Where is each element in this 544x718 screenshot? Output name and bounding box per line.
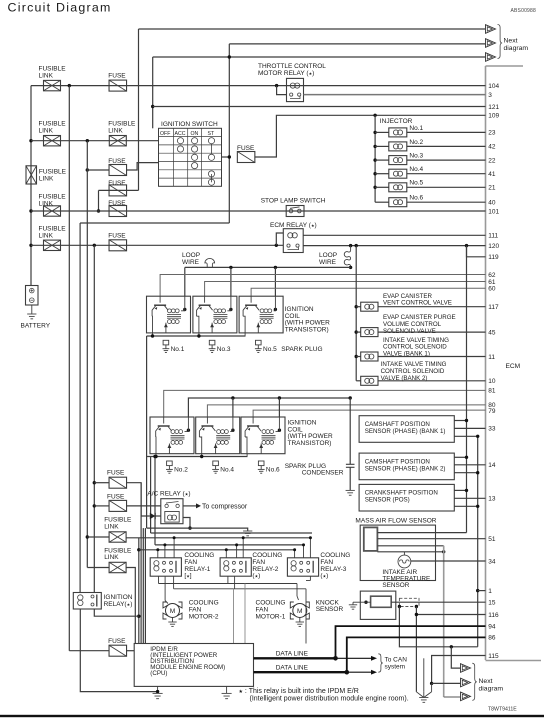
svg-text:No.3: No.3 [409, 153, 423, 160]
wire MAF ground [377, 545, 443, 547]
cooling fan motor-1 ground [299, 618, 301, 623]
wire vertical to ignition switch [152, 57, 154, 128]
svg-text:MOTOR-1: MOTOR-1 [256, 613, 286, 620]
node dot bus C junction [228, 55, 231, 58]
svg-text:3: 3 [488, 92, 492, 99]
svg-text:CAMSHAFT POSITION: CAMSHAFT POSITION [365, 421, 430, 428]
svg-text:DATA LINE: DATA LINE [276, 664, 309, 671]
node dot pin119 branch [465, 244, 468, 247]
cooling fan relay-1 [150, 558, 181, 576]
sensor box CAMSHAFT POSITION 1 [359, 416, 454, 443]
battery B1 [26, 286, 39, 306]
wire vertical x87.3 from FL2 [86, 141, 88, 568]
wire pin 116 [416, 607, 485, 615]
fusible link FL7 [109, 532, 126, 542]
mass air flow sensor box [360, 525, 435, 580]
svg-text:SPARK PLUG: SPARK PLUG [281, 346, 322, 353]
svg-text:No.1: No.1 [171, 346, 185, 353]
wire F7 out to diode [127, 483, 150, 516]
svg-text:VENT CONTROL VALVE: VENT CONTROL VALVE [383, 300, 452, 307]
wire MAF signal pin 51 [377, 538, 485, 540]
svg-text:FUSE: FUSE [108, 158, 126, 165]
svg-text:79: 79 [488, 408, 496, 415]
next diagram bracket top [498, 25, 503, 59]
svg-text:(★): (★) [252, 573, 260, 580]
CAN bracket [378, 654, 383, 672]
wire pin 79 to coil6 base [253, 410, 485, 417]
AC ground [243, 530, 252, 532]
svg-text:115: 115 [488, 653, 499, 660]
wire solenoid 4 to ECM [378, 380, 486, 382]
fusible link FL3 [109, 136, 126, 146]
svg-text:★ : This relay is built into t: ★ : This relay is built into the IPDM E/… [239, 688, 359, 695]
wire pin 94 thick [336, 626, 486, 658]
svg-text:FUSE: FUSE [107, 469, 125, 476]
next diagram bracket bottom [472, 663, 476, 700]
svg-text:BATTERY: BATTERY [21, 323, 51, 330]
svg-text:No.4: No.4 [220, 467, 234, 474]
svg-text:FUSE: FUSE [107, 493, 125, 500]
wire injector No.2 to ECM [407, 145, 486, 147]
wire F4 row [99, 189, 139, 191]
svg-text:WIRE: WIRE [182, 259, 200, 266]
wire emitter bus down [146, 336, 148, 457]
injector No.3 [373, 158, 376, 161]
svg-text:10: 10 [488, 378, 496, 385]
wire relay contact feed [277, 86, 287, 95]
wire ECM relay coil feed [276, 233, 283, 245]
svg-text:ST: ST [208, 131, 215, 137]
wire ECM relay contact out pin 120 [303, 245, 485, 247]
knock shield dashed box [399, 598, 419, 606]
wire MAF shield [377, 551, 443, 553]
wire bus to arrow A [139, 28, 486, 30]
svg-text:diagram: diagram [504, 45, 529, 52]
svg-text:DATA LINE: DATA LINE [276, 650, 309, 657]
wire ignition relay out [94, 609, 139, 616]
knock sensor box [360, 591, 396, 619]
wire trunk x143.3 [142, 528, 144, 643]
wire coil row1 power bus [185, 266, 351, 268]
svg-text:MOTOR RELAY (★): MOTOR RELAY (★) [258, 70, 314, 77]
wire ignition relay coil return [80, 609, 157, 692]
svg-text:M: M [170, 608, 176, 615]
injector No.2 [373, 145, 376, 148]
svg-text:ECM: ECM [506, 363, 521, 370]
fusible link FL8 [109, 562, 126, 572]
spark plug No.3 [209, 340, 215, 345]
cooling fan relay-2 [220, 558, 251, 576]
wire FL8 row [87, 567, 109, 569]
svg-text:51: 51 [488, 536, 496, 543]
data line 2 [254, 671, 347, 673]
fuse F1 [109, 80, 127, 91]
wire bus to arrow C [153, 56, 486, 58]
injector No.5 [373, 186, 376, 189]
svg-text:(Intelligent power distributio: (Intelligent power distribution module e… [250, 696, 409, 703]
wire F9 to IPDM [127, 650, 135, 652]
cooling fan motor-1 [293, 604, 307, 618]
svg-text:FUSE: FUSE [108, 638, 126, 645]
svg-text:To CAN: To CAN [385, 657, 408, 664]
svg-text:Next: Next [504, 38, 518, 45]
cooling fan relay-3 [287, 558, 318, 576]
wire F4 feed vertical [98, 190, 100, 211]
relay contact symbol [290, 93, 293, 96]
svg-text:FUSE: FUSE [108, 232, 126, 239]
svg-text:121: 121 [488, 104, 499, 111]
fusible link FL6 vertical inline [26, 166, 37, 184]
svg-text:34: 34 [488, 558, 496, 565]
node dot shield right [415, 605, 418, 608]
svg-text:104: 104 [488, 83, 499, 90]
IPDM ground left [157, 686, 159, 693]
wire solenoid feed vertical [355, 246, 357, 381]
spark plug No.4 [213, 461, 219, 466]
spark plug No.5 [256, 340, 262, 345]
injector No.1 [373, 131, 376, 134]
wire pin 1 stub [476, 589, 479, 592]
fuse F9 [109, 645, 127, 656]
svg-text:Next: Next [479, 678, 493, 685]
injector No.4 [373, 172, 376, 175]
IPDM ground right [226, 686, 228, 693]
cooling bus y549.8 [139, 549, 295, 551]
wire injector No.5 to ECM [407, 186, 486, 188]
wire pin101 bus [31, 210, 486, 212]
node dot F3 feed [86, 168, 89, 171]
node dot MAF shield [442, 550, 445, 553]
wire FL7 row [87, 536, 109, 538]
node dot after FL5 [93, 244, 96, 247]
next diagram arrow E [461, 678, 471, 687]
svg-text:116: 116 [488, 612, 499, 619]
svg-text:No.6: No.6 [266, 467, 280, 474]
fusible link FL4 [44, 206, 61, 216]
svg-text:111: 111 [488, 233, 498, 240]
injector No.6 [375, 201, 389, 203]
svg-text:60: 60 [488, 286, 496, 293]
sensor 1 power stub [454, 420, 466, 422]
cooling relay to motor wires [158, 576, 160, 583]
data line 1 [254, 657, 336, 659]
svg-text:45: 45 [488, 329, 496, 336]
wire left battery bus [30, 86, 32, 286]
svg-text:LINK: LINK [108, 128, 123, 135]
loop wire right symbol [344, 246, 350, 268]
sensor 1 signal to ECM [454, 427, 485, 429]
wire AC relay contact out [183, 505, 196, 507]
svg-text:LINK: LINK [104, 523, 119, 530]
ignition switch contacts [177, 138, 183, 144]
svg-text:No.3: No.3 [217, 346, 231, 353]
node dot EVAP feed [355, 244, 358, 247]
svg-text:RELAY(★): RELAY(★) [104, 601, 133, 608]
wire trunk x141.1 [140, 483, 142, 644]
fuse F7 [109, 477, 127, 488]
sensor 2 power stub [454, 456, 466, 458]
loop wire left symbol [205, 258, 215, 267]
svg-text:STOP LAMP SWITCH: STOP LAMP SWITCH [261, 197, 326, 204]
svg-text:OFF: OFF [160, 131, 170, 137]
IPDM E/R box [134, 644, 253, 687]
node dot switch output [228, 155, 231, 158]
svg-text:No.2: No.2 [409, 139, 423, 146]
sensor 3 signal to ECM [454, 497, 485, 499]
svg-text:WIRE: WIRE [319, 259, 337, 266]
intake air temperature sensor [403, 552, 405, 555]
svg-text:T8WT9411E: T8WT9411E [488, 707, 517, 713]
next diagram arrow D [461, 664, 471, 673]
wire injector No.3 to ECM [407, 159, 486, 161]
svg-text:ON: ON [191, 131, 199, 137]
wire trunk x138.8 [138, 538, 140, 644]
wire knock signal pin 15 [391, 601, 485, 603]
node dot row1 power box2 [229, 266, 232, 269]
svg-text:RELAY-2: RELAY-2 [252, 566, 278, 573]
next diagram arrow F [461, 692, 471, 701]
svg-text:86: 86 [488, 635, 496, 642]
wire shield to funnel [415, 615, 417, 692]
wire FL8 out down to IPDM [126, 568, 135, 644]
node dot link4 feed [29, 209, 32, 212]
wire row2 emitter bus corners down [146, 457, 148, 529]
svg-text:120: 120 [488, 243, 499, 250]
wire pin 61 to coil2 base [205, 282, 486, 297]
next diagram arrow B [486, 39, 496, 48]
svg-text:94: 94 [488, 623, 496, 630]
sensor box CAMSHAFT POSITION 2 [359, 453, 454, 480]
svg-text:CAMSHAFT POSITION: CAMSHAFT POSITION [365, 458, 430, 465]
wire row1 power drop box3 [274, 267, 276, 296]
svg-text:FUSE: FUSE [108, 72, 126, 79]
sensor 2 ground stub [454, 472, 477, 474]
svg-text:LINK: LINK [39, 128, 54, 135]
svg-text:No.4: No.4 [409, 166, 423, 173]
fuse F5 [109, 206, 127, 217]
svg-text:system: system [385, 664, 406, 671]
svg-text:LINK: LINK [39, 232, 54, 239]
svg-text:SENSOR (POS): SENSOR (POS) [365, 497, 410, 504]
wire sensor ground vertical x477.7 [477, 436, 479, 647]
wire solenoid 2 to ECM [378, 331, 486, 333]
svg-text:No.1: No.1 [409, 125, 423, 132]
wire pin 119 branch [467, 246, 486, 257]
wire F3 out to switch [127, 163, 159, 170]
sensor 3 power stub [454, 489, 466, 491]
svg-text:diagram: diagram [479, 686, 504, 693]
solenoid valve EVAP CANISTER PURGE 2 [355, 330, 358, 333]
wire F3 feed [87, 169, 108, 171]
svg-text:101: 101 [488, 208, 499, 215]
wire to arrow2 [432, 682, 461, 684]
svg-text:LINK: LINK [104, 554, 119, 561]
wire ignition switch feed bus [31, 140, 159, 142]
node dot F4 on bus [97, 209, 100, 212]
ignition relay U4 [73, 593, 101, 610]
node junction at x152.7 y106.5 [151, 105, 154, 108]
fuse F4 [109, 185, 127, 196]
svg-text:SENSOR (PHASE) (BANK 2): SENSOR (PHASE) (BANK 2) [365, 465, 446, 472]
svg-text:81: 81 [488, 388, 496, 395]
svg-text:To compressor: To compressor [202, 503, 248, 510]
fuse F6 [109, 240, 127, 251]
wire trunk x145.4 [144, 528, 146, 643]
svg-text:33: 33 [488, 426, 496, 433]
fusible link FL2 [44, 136, 61, 146]
svg-text:41: 41 [488, 171, 496, 178]
svg-text:ABS00988: ABS00988 [510, 8, 536, 14]
svg-text:(CPU): (CPU) [150, 670, 167, 677]
svg-text:117: 117 [488, 304, 499, 311]
wire vertical x94.3 from FL5 [93, 245, 95, 592]
wire vertical x80.1 ignition feed [79, 223, 81, 593]
svg-text:SENSOR: SENSOR [316, 606, 344, 613]
wire vertical x69.3 from FL1 [68, 86, 70, 651]
cooling relay top stubs [157, 550, 159, 558]
spark plug No.2 [167, 461, 173, 466]
wire left loop to coil box1 [184, 267, 186, 296]
svg-text:109: 109 [488, 113, 499, 120]
wire arrow1 branch [451, 647, 460, 668]
cooling fan motor-2 ground [172, 618, 174, 623]
svg-text:FUSE: FUSE [237, 145, 255, 152]
fuse F2 [237, 152, 255, 163]
svg-text:62: 62 [488, 272, 496, 279]
svg-text:No.6: No.6 [409, 195, 423, 202]
fuse F3 [109, 165, 127, 176]
node dot data2 [345, 670, 350, 675]
grey verticals to IPDM right [233, 589, 235, 644]
wire F9 feed [69, 650, 109, 652]
node dot shield left [398, 605, 401, 608]
wire solenoid 1 to ECM [378, 306, 486, 308]
wire solenoid 3 to ECM [378, 356, 486, 358]
svg-text:RELAY-1: RELAY-1 [184, 566, 210, 573]
node dot link2 feed [29, 139, 32, 142]
wire pin 81 to coil4 base [164, 390, 486, 417]
sensor 2 signal to ECM [454, 464, 485, 466]
svg-text:CONDENSER: CONDENSER [302, 469, 344, 476]
node dot pin116 start [415, 613, 418, 616]
node dot arrow2 branch [430, 682, 433, 685]
wire row1 power drop box2 [230, 267, 232, 296]
throttle control motor relay U1 [287, 78, 304, 101]
svg-text:IGNITION SWITCH: IGNITION SWITCH [161, 121, 218, 128]
wire pin 86 thick [347, 637, 486, 672]
wire bus to arrow B [229, 43, 485, 45]
fuse F8 [109, 500, 127, 511]
wire pin 115 [432, 656, 486, 684]
svg-text:21: 21 [488, 185, 496, 192]
battery ground [31, 305, 33, 314]
svg-text:INJECTOR: INJECTOR [380, 118, 413, 125]
sensor 1 ground stub [454, 435, 477, 437]
node dot row1 power box3 [274, 266, 277, 269]
svg-text:Circuit Diagram: Circuit Diagram [8, 1, 112, 15]
svg-text:14: 14 [488, 462, 496, 469]
svg-text:SENSOR: SENSOR [382, 582, 409, 589]
injector feed bus [373, 114, 376, 117]
ignition coil row2 #2 [196, 417, 240, 454]
svg-text:TRANSISTOR): TRANSISTOR) [285, 326, 329, 333]
wire y528 bus [147, 528, 248, 531]
solenoid valve INTAKE VALVE TIMING 3 [355, 355, 358, 358]
bottom border [0, 715, 544, 717]
svg-text:42: 42 [488, 144, 496, 151]
wire F8 row [94, 505, 109, 507]
node dot FL7 feed [86, 535, 89, 538]
cooling fan motor-2 [166, 604, 180, 618]
stop lamp switch S1 [286, 206, 304, 217]
svg-text:23: 23 [488, 130, 496, 137]
svg-text:22: 22 [488, 157, 496, 164]
ECM connector line [485, 66, 487, 660]
svg-text:11: 11 [488, 354, 495, 361]
node dot knock inner [364, 601, 367, 604]
node dot shield chain [450, 645, 453, 648]
wire relay contact out pin 3 [304, 94, 486, 96]
node dot row2 power source [349, 396, 352, 399]
wire F2 to pin 109 [255, 115, 486, 157]
node dot relay coil feed [275, 84, 278, 87]
svg-text:LINK: LINK [39, 175, 54, 182]
wire IAT to pin 34 [411, 560, 486, 562]
shield funnel to ground [423, 658, 425, 692]
diode D1 [150, 513, 155, 519]
node dot link5 feed [29, 244, 32, 247]
node dot ECM relay input [275, 244, 278, 247]
node dot data1 [333, 656, 338, 661]
svg-text:1: 1 [488, 588, 492, 595]
svg-text:No.2: No.2 [174, 467, 188, 474]
fusible link FL5 [44, 240, 61, 250]
svg-text:TRANSISTOR): TRANSISTOR) [288, 440, 332, 447]
wire pin104 bus [31, 85, 486, 87]
spark plug No.1 [163, 340, 169, 345]
wire to arrow3 from shield [444, 696, 461, 698]
node dot row2 power box6 [278, 396, 281, 399]
svg-text:A/C RELAY (★): A/C RELAY (★) [147, 490, 190, 497]
node dot loop right bottom [349, 266, 352, 269]
svg-text:119: 119 [488, 254, 499, 261]
ignition coil row1 #3 [239, 296, 283, 333]
wire FL7 out bus [126, 537, 310, 539]
wire horizontal y223 jog [80, 222, 229, 224]
condenser C1 [349, 398, 351, 464]
wire vertical ignition switch feed [228, 44, 230, 223]
svg-text:13: 13 [488, 496, 496, 503]
svg-text:(★): (★) [320, 573, 328, 580]
wire AC coil return to ground [183, 518, 190, 529]
node dot F8 feed [93, 504, 96, 507]
ignition coil row1 #1 [147, 296, 191, 333]
shield drain vertical grey [443, 546, 445, 697]
solenoid valve INTAKE VALVE TIMING 4 [356, 380, 361, 382]
svg-text:15: 15 [488, 600, 496, 607]
spark plug No.6 [258, 461, 264, 466]
fusible link FL1 [44, 80, 61, 90]
wire injector No.6 to ECM [407, 201, 486, 203]
node dot F7 feed [93, 481, 96, 484]
svg-text:[★]: [★] [184, 573, 191, 580]
wire row2 power bus [188, 398, 350, 417]
wire sensor power vertical x466.5 [466, 246, 468, 533]
wire MAF power [377, 532, 466, 534]
node dot loop wire right [349, 244, 352, 247]
next diagram arrow C [486, 53, 496, 62]
svg-text:MOTOR-2: MOTOR-2 [189, 613, 219, 620]
